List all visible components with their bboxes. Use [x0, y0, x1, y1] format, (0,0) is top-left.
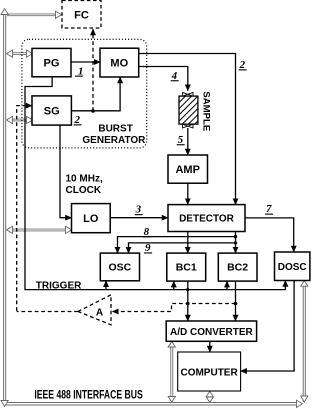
svg-text:CLOCK: CLOCK — [66, 185, 102, 196]
bus arrow bottom-left (open, down) — [1, 401, 8, 407]
wire 8 to OSC — [118, 237, 236, 253]
box DETECTOR — [168, 205, 245, 232]
svg-text:COMPUTER: COMPUTER — [180, 368, 238, 379]
dashed wire apex to left — [17, 311, 78, 313]
trigger net from PG — [25, 77, 285, 290]
wire SAMPLE to AMP — [187, 128, 189, 155]
bus arrow right-bottom (open, down) — [301, 396, 308, 402]
svg-text:MO: MO — [110, 58, 128, 70]
box BC1 — [167, 253, 206, 281]
svg-text:GENERATOR: GENERATOR — [82, 135, 146, 146]
wire MO output 2 to DETECTOR — [139, 54, 236, 205]
trigger stub to OSC — [105, 281, 107, 290]
amplifier A (dashed triangle) — [78, 295, 111, 325]
wire DETECTOR to BC1 — [187, 232, 189, 253]
wire BC2 to A/D — [235, 281, 237, 321]
svg-text:1: 1 — [78, 65, 84, 77]
wire MO output 4 to SAMPLE — [139, 67, 188, 91]
svg-text:PG: PG — [44, 58, 60, 70]
wire BC1 to A/D — [187, 281, 189, 321]
transducer bowtie bottom — [183, 124, 193, 128]
svg-text:A/D CONVERTER: A/D CONVERTER — [170, 327, 254, 338]
bus arrow bottom-right (open, right) — [297, 400, 303, 407]
bus link to FC (gray double line) — [7, 14, 56, 16]
svg-text:BC2: BC2 — [227, 262, 248, 274]
svg-text:DOSC: DOSC — [278, 262, 307, 273]
dashed gate net: vertical + to SG — [17, 106, 32, 311]
box BC2 — [218, 253, 257, 281]
wire LO to DETECTOR — [110, 217, 168, 219]
bus stub DOSC open arrow up — [301, 281, 308, 286]
wire SG clock to LO — [60, 125, 71, 218]
box MO — [100, 48, 139, 77]
dashed wire FC to SG-MO net — [92, 29, 94, 111]
svg-text:5: 5 — [178, 134, 184, 146]
junction BC1-dashed — [186, 302, 190, 306]
wire PG to MO — [71, 61, 100, 63]
wire SG to MO — [71, 77, 120, 111]
bus link to PG (gray double line, arrows both ends) — [12, 53, 27, 55]
junction BC1-trigger crossing — [186, 288, 189, 291]
box A/D CONVERTER — [166, 321, 256, 341]
svg-text:8: 8 — [144, 226, 150, 238]
junction FC tap — [91, 109, 95, 113]
svg-text:SAMPLE: SAMPLE — [201, 91, 212, 132]
svg-text:A: A — [96, 308, 103, 319]
junction 9-line — [234, 241, 237, 244]
wire AMP to DETECTOR — [187, 183, 189, 204]
wire DETECTOR to BC2 — [235, 232, 237, 253]
box LO — [72, 204, 111, 233]
bus stub COMPUTER (gray double line, open arrows both ends) — [209, 395, 211, 399]
box FC (dashed) — [62, 1, 101, 29]
svg-text:TRIGGER: TRIGGER — [36, 280, 82, 291]
svg-text:7: 7 — [266, 203, 272, 215]
svg-text:AMP: AMP — [175, 164, 199, 176]
bus stub A/D converter (gray double line, open arrows both ends) — [171, 346, 173, 398]
svg-text:4: 4 — [171, 70, 178, 82]
box OSC — [100, 253, 139, 281]
box PG — [32, 48, 71, 76]
trigger stub to BC1 — [173, 281, 175, 289]
svg-text:2: 2 — [239, 59, 246, 71]
IEEE 488 bus: bottom horizontal double line — [4, 403, 300, 406]
trigger stub to BC2 — [226, 281, 228, 289]
transducer bowtie top — [183, 92, 193, 96]
svg-text:10 MHz,: 10 MHz, — [66, 174, 103, 185]
junction 8-line — [234, 235, 237, 238]
BURST GENERATOR dotted box — [22, 39, 147, 148]
wire DOSC to COMPUTER — [241, 281, 294, 372]
junction BC2-dashed — [234, 302, 238, 306]
box DOSC — [275, 252, 310, 281]
wire DETECTOR 7 to DOSC — [245, 218, 294, 252]
svg-text:3: 3 — [135, 204, 142, 216]
svg-text:BC1: BC1 — [176, 262, 197, 274]
wire A/D to COMPUTER — [209, 341, 211, 352]
svg-text:DETECTOR: DETECTOR — [179, 214, 235, 225]
svg-text:2: 2 — [74, 114, 81, 126]
sample block (hatched) — [179, 96, 198, 125]
bus link to LO (gray double line, arrows both ends) — [12, 229, 66, 231]
dashed input into A — [113, 304, 236, 312]
IEEE 488 bus: right vertical double line — [303, 283, 305, 402]
bus link to SG (gray double line, arrows both ends) — [12, 119, 27, 121]
svg-text:LO: LO — [83, 213, 99, 225]
svg-text:BURST: BURST — [98, 124, 132, 135]
IEEE 488 bus: left vertical double line — [4, 13, 6, 405]
box COMPUTER — [178, 352, 241, 391]
svg-text:IEEE 488 INTERFACE BUS: IEEE 488 INTERFACE BUS — [34, 389, 142, 402]
svg-text:SG: SG — [44, 106, 60, 118]
box SG — [32, 96, 71, 125]
wire 9 to OSC — [129, 243, 236, 253]
bus arrow top-left (open, up) — [1, 9, 8, 15]
svg-text:FC: FC — [74, 10, 89, 22]
bus link FC open arrowhead right — [56, 11, 62, 18]
svg-text:OSC: OSC — [109, 262, 132, 274]
box AMP — [168, 155, 208, 183]
